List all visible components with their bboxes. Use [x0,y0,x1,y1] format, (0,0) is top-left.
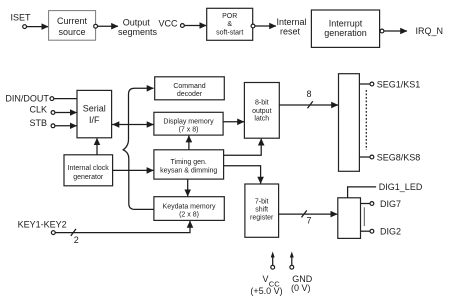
svg-text:KEY1-KEY2: KEY1-KEY2 [18,219,67,229]
block interrupt generation [311,10,379,47]
wire SEG8/KS8 [359,152,420,162]
wire output latch to segment driver bus 8 [279,89,338,108]
svg-text:7-bit: 7-bit [255,199,269,206]
svg-text:DIG2: DIG2 [380,226,401,236]
svg-text:Interrupt: Interrupt [329,19,363,29]
block serial interface [77,90,112,137]
wire branch down to keydata with brace bend [123,125,154,210]
terminal STB [51,124,55,128]
dashed segment range line [365,90,367,150]
svg-text:8: 8 [306,89,311,99]
svg-text:STB: STB [30,118,48,128]
svg-text:generation: generation [324,28,367,38]
wire serial to display memory bidirectional [112,124,154,126]
wire DIG1_LED [348,182,423,198]
svg-text:shift: shift [255,207,268,214]
wire interrupt to IRQ_N [384,30,407,32]
svg-text:latch: latch [254,116,269,123]
svg-text:2: 2 [74,235,79,245]
svg-text:Timing gen.: Timing gen. [171,159,207,166]
svg-text:POR: POR [222,13,237,20]
block display memory [154,112,223,135]
svg-text:SEG8/KS8: SEG8/KS8 [377,152,421,162]
svg-text:(0 V): (0 V) [291,283,311,293]
wire clock to serial [96,138,98,155]
wire shift register to digit driver bus 7 [279,210,338,225]
svg-text:Display memory: Display memory [163,119,214,126]
svg-text:DIG7: DIG7 [380,199,401,209]
wire STB to serial [55,125,76,127]
svg-text:output: output [252,108,272,115]
block keydata memory [154,197,224,221]
block timing generator [154,150,224,179]
wire timing to keydata [187,179,189,196]
terminal DIN/DOUT [50,97,54,101]
svg-text:source: source [58,27,85,37]
terminal IRQ_N [380,29,384,33]
svg-text:DIN/DOUT: DIN/DOUT [5,93,49,103]
svg-text:CLK: CLK [30,105,48,115]
svg-text:soft-start: soft-start [216,29,243,36]
wire current source to output segments [98,25,118,27]
terminal VCC supply [250,252,282,297]
svg-text:VCC: VCC [158,18,178,28]
block 8-bit output latch [244,83,279,139]
svg-text:ISET: ISET [11,12,32,22]
block segment driver [339,74,360,172]
wire SEG1/KS1 [359,79,420,89]
terminal ISET [23,25,27,29]
svg-text:DIG1_LED: DIG1_LED [379,182,423,192]
wire display memory to output latch [223,121,244,123]
svg-text:IRQ_N: IRQ_N [416,26,444,36]
svg-text:generator: generator [73,174,104,181]
svg-text:7: 7 [306,215,311,225]
svg-text:Current: Current [57,16,88,26]
svg-text:I/F: I/F [89,115,100,125]
svg-text:Serial: Serial [83,104,106,114]
svg-text:reset: reset [280,26,301,36]
block POR and soft-start [207,8,253,40]
label Output segments [118,18,158,37]
wire clock to timing generator [113,169,154,171]
wire timing to shift register [224,166,261,184]
svg-text:keysan & dimming: keysan & dimming [160,167,217,174]
wire key to keydata bus 2 [56,221,191,245]
svg-text:V: V [263,274,269,284]
terminal POR output [251,24,255,28]
block command decoder [155,77,225,100]
terminal GND supply [290,252,313,294]
svg-text:(+5.0 V): (+5.0 V) [250,286,282,296]
wire POR to internal reset [255,25,276,27]
svg-text:(7 x 8): (7 x 8) [179,127,199,134]
terminal KEY1-KEY2 [51,231,55,235]
block internal clock generator [64,155,113,186]
svg-text:(2 x 8): (2 x 8) [179,211,199,218]
svg-text:SEG1/KS1: SEG1/KS1 [377,79,421,89]
wire CLK to serial [55,112,76,114]
block digit driver [338,198,361,239]
terminal current source output [94,24,98,28]
terminal VCC [181,24,185,28]
svg-text:&: & [227,21,232,28]
label Internal reset [276,17,306,36]
svg-text:8-bit: 8-bit [255,99,269,106]
svg-text:Internal clock: Internal clock [68,165,110,172]
block 7-bit shift register [245,184,279,237]
wire branch up to command decoder [129,88,154,124]
svg-text:Command: Command [173,83,205,90]
terminal CLK [51,111,55,115]
svg-text:decoder: decoder [177,91,203,98]
wire DIG7 [361,199,402,209]
wire DIG2 [361,226,402,236]
svg-text:segments: segments [118,27,158,37]
digit range line [363,207,365,226]
wire VCC to POR [185,25,207,27]
wire timing to output latch [224,139,262,156]
svg-text:register: register [250,215,274,222]
wire ISET to current source [27,26,48,28]
wire DIN/DOUT to serial [54,98,77,100]
svg-text:Keydata memory: Keydata memory [163,203,216,210]
wire timing to display memory [188,136,190,150]
block current source [49,11,96,41]
